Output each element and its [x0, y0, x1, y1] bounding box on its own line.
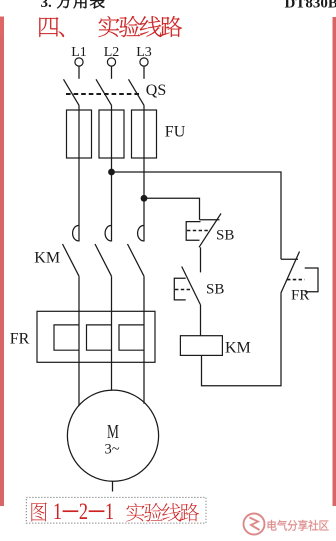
wire SB1 to SB2	[200, 247, 202, 272]
terminal circle L3	[140, 58, 148, 66]
svg-text:M: M	[107, 420, 119, 442]
svg-text:KM: KM	[225, 339, 251, 356]
svg-text:FR: FR	[291, 287, 309, 303]
contactor KM main contact 3 blade	[128, 244, 145, 276]
pushbutton SB1 linkage dashed	[187, 230, 210, 232]
switch QS blade 3	[129, 79, 145, 105]
wire control branch upper (to FR contact)	[112, 172, 282, 259]
terminal circle L1	[75, 58, 83, 66]
contactor KM main contact 3 arc	[138, 225, 144, 240]
caption text 图1-2-1实验线路	[31, 502, 46, 521]
svg-text:DT830B: DT830B	[285, 0, 336, 12]
motor M 3~	[67, 390, 158, 481]
wire terminal L1 to QS	[78, 66, 80, 79]
svg-text:KM: KM	[34, 250, 60, 267]
fuse FU1 body	[67, 110, 92, 158]
wire KM contact 2 to FR heater	[111, 276, 113, 390]
wire terminal L3 to QS	[143, 66, 145, 79]
thermal relay FR contact seat bar	[281, 258, 298, 260]
FR heater element 1	[54, 325, 79, 350]
node junction on L2 phase	[108, 169, 115, 176]
wire KM contact 1 to FR heater	[78, 276, 80, 406]
contactor KM main contact 2 arc	[105, 225, 111, 240]
node junction on L3 phase	[141, 195, 148, 202]
svg-text:FU: FU	[165, 124, 186, 141]
wire terminal L2 to QS	[111, 66, 113, 79]
svg-text:2: 2	[79, 498, 88, 525]
contactor KM main contact 1 arc	[73, 225, 79, 240]
wire KM coil to FR contact return	[202, 293, 282, 385]
contactor KM main contact 1 blade	[63, 244, 80, 276]
switch QS blade 1	[64, 79, 80, 105]
FR heater element 2	[87, 325, 112, 350]
FR heater element 3	[119, 325, 144, 350]
motor bottom stub wire	[112, 481, 114, 491]
pushbutton SB2 actuator bracket	[174, 278, 185, 300]
title 四、实验线路	[39, 17, 58, 37]
pushbutton SB2 (start, NO) blade	[182, 267, 201, 305]
wire phase 2 QS to KM contact	[111, 105, 113, 241]
wire phase 1 QS to KM contact	[78, 105, 80, 241]
wire phase 3 QS to KM contact	[143, 105, 145, 241]
wire SB2 to KM coil	[200, 305, 202, 336]
pushbutton SB1 actuator bracket	[186, 222, 200, 241]
svg-text:1: 1	[53, 498, 62, 525]
pushbutton SB2 linkage dashed	[175, 289, 192, 291]
right red border bar	[333, 17, 336, 506]
contactor KM main contact 2 blade	[95, 244, 112, 276]
watermark logo circle	[244, 514, 265, 535]
watermark text 电气分享社区	[268, 520, 277, 531]
pushbutton SB1 blade	[199, 214, 221, 248]
wire control branch lower (to SB stop)	[144, 198, 200, 220]
fuse FU2 body	[99, 110, 124, 158]
pushbutton SB1 (stop, NC) seat bar	[200, 219, 220, 221]
thermal relay FR trip bracket	[305, 268, 318, 292]
thermal relay FR linkage dashed	[287, 279, 305, 281]
svg-text:FR: FR	[10, 330, 30, 347]
svg-text:3~: 3~	[104, 442, 119, 458]
svg-text:3.: 3.	[41, 0, 53, 11]
switch QS blade 2	[96, 79, 112, 105]
svg-text:QS: QS	[146, 82, 166, 99]
left red border bar	[0, 17, 4, 506]
fuse FU3 body	[132, 110, 157, 158]
svg-text:1: 1	[105, 498, 114, 525]
caption dotted frame	[26, 497, 206, 523]
thermal relay FR contact blade	[281, 252, 300, 294]
svg-text:SB: SB	[216, 228, 234, 244]
QS linkage dashed line	[66, 93, 140, 95]
thermal relay FR heater box	[37, 311, 155, 362]
contactor coil KM	[180, 336, 222, 356]
terminal circle L2	[107, 58, 115, 66]
svg-text:SB: SB	[206, 281, 224, 297]
wire KM contact 3 to FR heater	[143, 276, 145, 404]
red heading block (left of title)	[0, 17, 4, 38]
